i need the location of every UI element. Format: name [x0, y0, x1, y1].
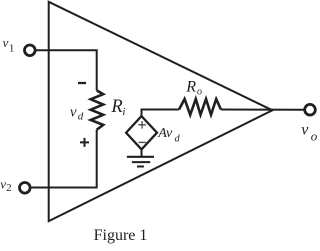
svg-text:2: 2 [6, 182, 12, 194]
svg-text:v: v [70, 104, 77, 120]
svg-text:v: v [3, 35, 9, 50]
label v2 [0, 176, 11, 193]
wire from Ro through apex to vo terminal [221, 109, 304, 111]
input terminal v1 (open circle) [25, 45, 36, 56]
ground [127, 149, 154, 166]
resistor Ro (zigzag) [179, 99, 221, 115]
plus sign (vd polarity, bottom) [80, 138, 89, 147]
caption Figure 1 [94, 227, 148, 244]
op-amp triangle [49, 2, 273, 221]
svg-text:i: i [122, 106, 125, 118]
plus sign inside diamond [138, 121, 146, 129]
label vo [301, 121, 318, 143]
resistor Ri (zigzag) [91, 90, 104, 129]
svg-text:o: o [197, 87, 202, 98]
wire from bottom of Ri to v2 terminal [31, 130, 97, 188]
wire from dependent source top to Ro [142, 110, 180, 117]
label vd [70, 104, 84, 122]
svg-text:Figure 1: Figure 1 [94, 227, 148, 244]
label Ri [110, 97, 125, 118]
svg-text:1: 1 [9, 43, 15, 55]
svg-text:Av: Av [157, 126, 173, 141]
label Avd (dependent source value) [157, 126, 180, 144]
minus sign (vd polarity, top) [78, 82, 86, 84]
dependent source U1 diamond (Avd) [126, 116, 157, 149]
svg-text:d: d [78, 111, 84, 123]
label v1 [3, 35, 15, 55]
input terminal v2 (open circle) [20, 183, 31, 194]
minus sign inside diamond [139, 141, 146, 143]
svg-text:R: R [110, 97, 122, 117]
svg-text:R: R [185, 79, 196, 96]
wire from v1 terminal to top of Ri [35, 50, 96, 90]
output terminal vo (open circle) [305, 104, 316, 115]
svg-text:v: v [301, 121, 309, 138]
label Ro [185, 79, 202, 98]
svg-text:o: o [311, 128, 318, 143]
